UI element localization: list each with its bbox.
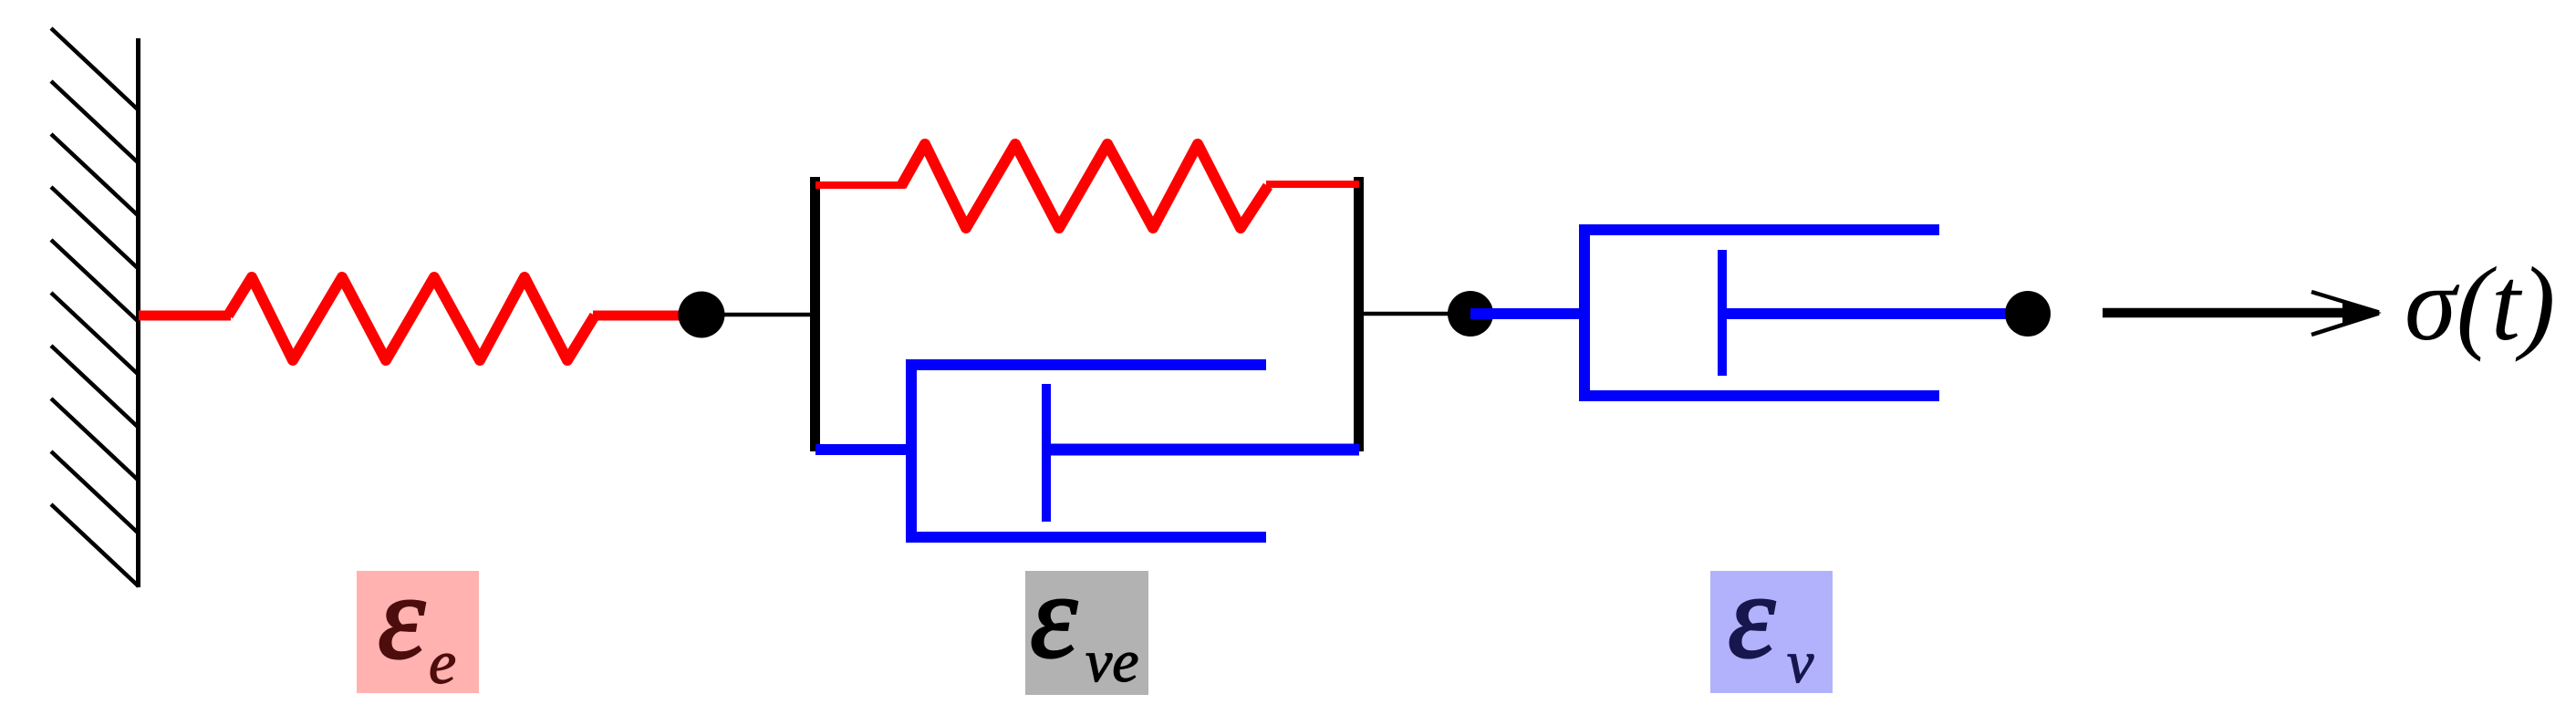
- svg-text:ε: ε: [378, 550, 425, 684]
- wire frame to node B: [1364, 312, 1473, 316]
- svg-text:ε: ε: [1030, 549, 1077, 683]
- stress arrow head: [2342, 302, 2382, 325]
- dashpot D1 cylinder: [911, 365, 1266, 537]
- node A: [679, 292, 725, 338]
- wall hatching: [51, 28, 139, 586]
- fixed wall: [136, 38, 140, 587]
- strain label epsilon_ve box: [1025, 571, 1148, 695]
- svg-text:ve: ve: [1085, 628, 1139, 695]
- dashpot D2 piston: [1718, 250, 1727, 376]
- wire frame to spring E2: [815, 181, 905, 189]
- strain label epsilon_v box: [1710, 571, 1833, 693]
- wire frame to dashpot D1: [815, 444, 917, 455]
- Kelvin frame left bar: [810, 177, 820, 451]
- wire node B to dashpot D2: [1470, 308, 1587, 319]
- dashpot D2 cylinder: [1584, 230, 1939, 396]
- stress arrow shaft: [2103, 308, 2372, 318]
- wire spring E2 to frame: [1266, 181, 1359, 188]
- svg-text:σ(t): σ(t): [2405, 246, 2555, 362]
- dashpot D2 piston rod: [1722, 308, 2028, 319]
- svg-text:ε: ε: [1728, 549, 1775, 683]
- spring E1 (elastic spring): [228, 277, 595, 360]
- wire spring E1 to node A: [593, 311, 682, 321]
- svg-text:e: e: [429, 627, 456, 697]
- node B: [1448, 291, 1493, 337]
- dashpot D1 piston rod: [1046, 444, 1359, 456]
- wire node A to frame: [701, 313, 815, 317]
- svg-text:v: v: [1787, 629, 1814, 696]
- node C: [2005, 291, 2051, 337]
- spring E2 (Kelvin spring): [901, 144, 1268, 228]
- dashpot D1 piston: [1042, 384, 1051, 522]
- strain label epsilon_e box: [357, 571, 479, 693]
- wire wall to spring E1: [139, 311, 231, 321]
- Kelvin frame right bar: [1354, 177, 1364, 451]
